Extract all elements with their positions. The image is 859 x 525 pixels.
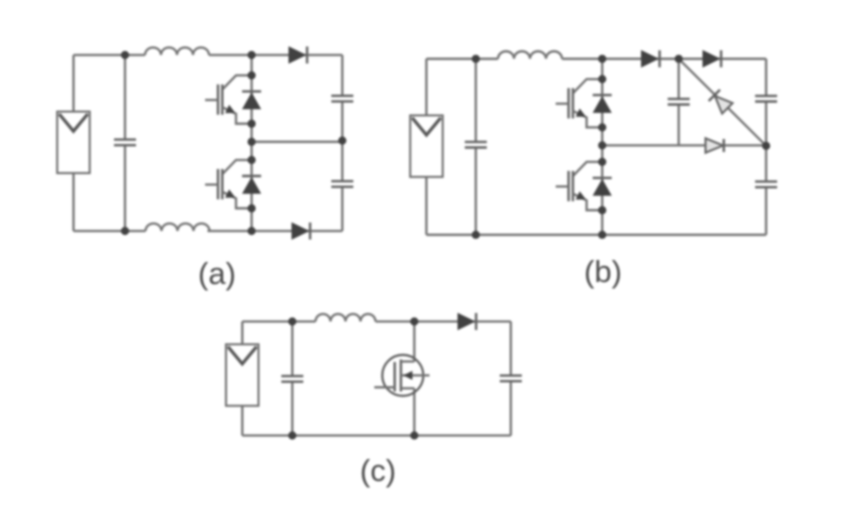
wire bottom (c) [242,434,511,436]
wire input-cap branch (c) [291,322,293,436]
wire center rail (a) [250,55,252,231]
wire diagonal (b) [679,59,766,146]
capacitor output lower (a) [331,181,353,187]
svg-text:(a): (a) [198,256,236,291]
wire top (c) [242,320,511,322]
capacitor output upper (b) [755,96,777,102]
capacitor input (a) [114,140,136,146]
wire center rail (b) [601,59,603,235]
wire input-cap branch (a) [124,55,126,231]
inductor top (a) [145,48,209,56]
wire right rail (c) [510,322,512,436]
PV source (a) [57,112,89,174]
wire top (a) [74,54,343,56]
node top-left junction (c) [288,317,296,325]
IGBT upper with antiparallel diode (b) [556,75,612,132]
PV source (c) [226,344,259,406]
node top rail junction (b) [598,55,606,63]
capacitor input (c) [281,376,303,382]
node top-left junction (b) [472,55,480,63]
node top drain junction (c) [410,317,418,325]
wire source (c) [413,388,415,435]
wire left rail (b) [425,59,427,235]
inductor (b) [498,51,562,59]
diode (c) [458,313,477,331]
wire input-cap branch (b) [475,59,477,235]
svg-text:(c): (c) [360,453,396,488]
capacitor input (b) [465,142,487,148]
node right mid junction (a) [338,137,346,145]
diode mid link (b) [706,138,724,152]
capacitor clamp (b) [668,99,690,105]
node bottom-left junction (c) [288,431,296,439]
svg-text:(b): (b) [584,254,622,289]
wire bottom (a) [74,230,343,232]
PV source (b) [410,115,443,176]
node right mid junction (b) [762,142,770,150]
node bottom source junction (c) [410,431,418,439]
IGBT upper with antiparallel diode (a) [205,71,261,128]
diode top first (b) [641,50,660,68]
node top-left junction (a) [121,51,129,59]
wire top (b) [426,58,766,60]
node mid rail junction (b) [598,141,606,149]
wire mid link (a) [252,141,343,143]
diode diagonal (b) [709,90,733,114]
wire right rail (b) [765,59,767,235]
IGBT lower with antiparallel diode (a) [205,156,261,213]
wire drain (c) [413,322,415,362]
wire right rail (a) [341,55,343,231]
node top rail junction (a) [248,51,256,59]
wire mid link (b) [602,144,766,146]
IGBT lower with antiparallel diode (b) [556,158,612,215]
inductor (c) [316,314,376,322]
wire clamp branch (b) [678,59,680,146]
node bottom rail junction (b) [598,231,606,239]
capacitor output lower (b) [755,182,777,188]
node bottom-left junction (b) [472,231,480,239]
diode bottom (a) [292,222,311,240]
wire bottom (b) [426,234,766,236]
diode top (a) [289,46,308,64]
wire left rail (c) [241,322,243,436]
MOSFET (c) [374,355,429,396]
node mid rail junction (a) [248,138,256,146]
wire left rail (a) [72,55,74,231]
capacitor output upper (a) [331,96,353,102]
capacitor output (c) [500,376,522,382]
diode top second (b) [703,50,722,68]
node bottom-left junction (a) [121,227,129,235]
node bottom rail junction (a) [248,227,256,235]
node top clamp junction (b) [675,55,683,63]
inductor bottom (a) [146,224,210,232]
